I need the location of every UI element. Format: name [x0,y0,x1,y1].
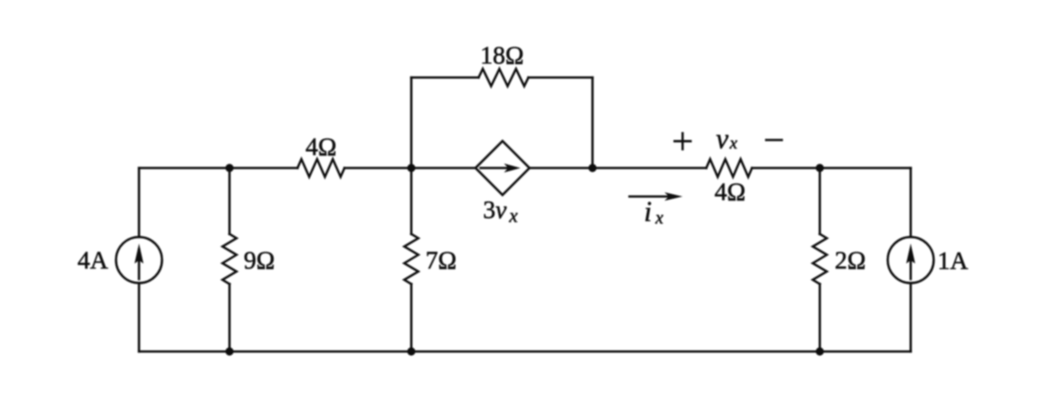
svg-text:4A: 4A [77,248,108,275]
svg-text:v: v [716,124,729,155]
svg-text:i: i [644,197,652,228]
svg-text:4Ω: 4Ω [714,179,745,206]
svg-text:x: x [655,208,664,228]
svg-text:2Ω: 2Ω [835,248,866,275]
svg-text:x: x [729,134,738,153]
svg-text:9Ω: 9Ω [244,248,275,275]
svg-text:4Ω: 4Ω [305,134,336,161]
svg-text:1A: 1A [938,248,969,275]
svg-text:18Ω: 18Ω [480,43,524,70]
svg-text:7Ω: 7Ω [426,248,457,275]
svg-text:3v: 3v [483,197,508,224]
svg-text:x: x [508,206,518,227]
